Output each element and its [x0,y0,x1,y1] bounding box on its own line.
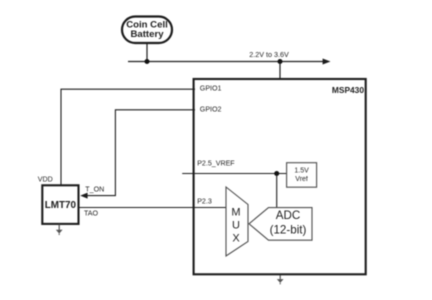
wire P2.5_VREF [182,173,286,175]
svg-text:TAO: TAO [84,209,99,217]
svg-text:Battery: Battery [130,29,164,40]
sensor U2 LMT70 box [42,185,78,224]
svg-text:Vref: Vref [295,176,308,183]
reference 1.5V Vref box [287,163,317,188]
svg-text:1.5V: 1.5V [294,168,309,175]
multiplexer MUX [226,187,248,256]
wire battery stem [146,43,148,62]
svg-text:VDD: VDD [38,175,53,183]
svg-text:(12-bit): (12-bit) [270,223,307,236]
svg-text:GPIO1: GPIO1 [200,85,222,93]
svg-text:ADC: ADC [276,209,300,222]
wire power rail 2.2V to 3.6V [128,50,331,65]
ground MSP430 [277,275,284,284]
wire vref junction to ADC [276,174,278,209]
ground LMT70 [56,224,63,235]
svg-text:U: U [232,220,240,232]
svg-text:T_ON: T_ON [85,186,104,194]
wire GPIO2 / T_ON [80,110,195,199]
svg-text:P2.3: P2.3 [197,198,212,206]
svg-text:M: M [231,207,240,219]
svg-text:P2.5_VREF: P2.5_VREF [197,159,235,167]
svg-text:X: X [232,232,240,244]
wire TAO / P2.3 [80,207,227,209]
node junction vref [274,171,279,176]
node junction battery-rail [145,59,150,64]
node junction rail-MSP430 [278,59,283,64]
battery Coin Cell Battery [122,17,172,44]
svg-text:2.2V to 3.6V: 2.2V to 3.6V [249,50,289,59]
wire GPIO1 [61,89,195,185]
svg-text:GPIO2: GPIO2 [200,105,222,113]
svg-text:LMT70: LMT70 [45,200,77,211]
ADC (12-bit) block [249,208,312,241]
svg-text:MSP430: MSP430 [332,85,364,95]
IC U1 MSP430 box [194,79,366,274]
wire rail to MSP430 top [279,62,281,80]
